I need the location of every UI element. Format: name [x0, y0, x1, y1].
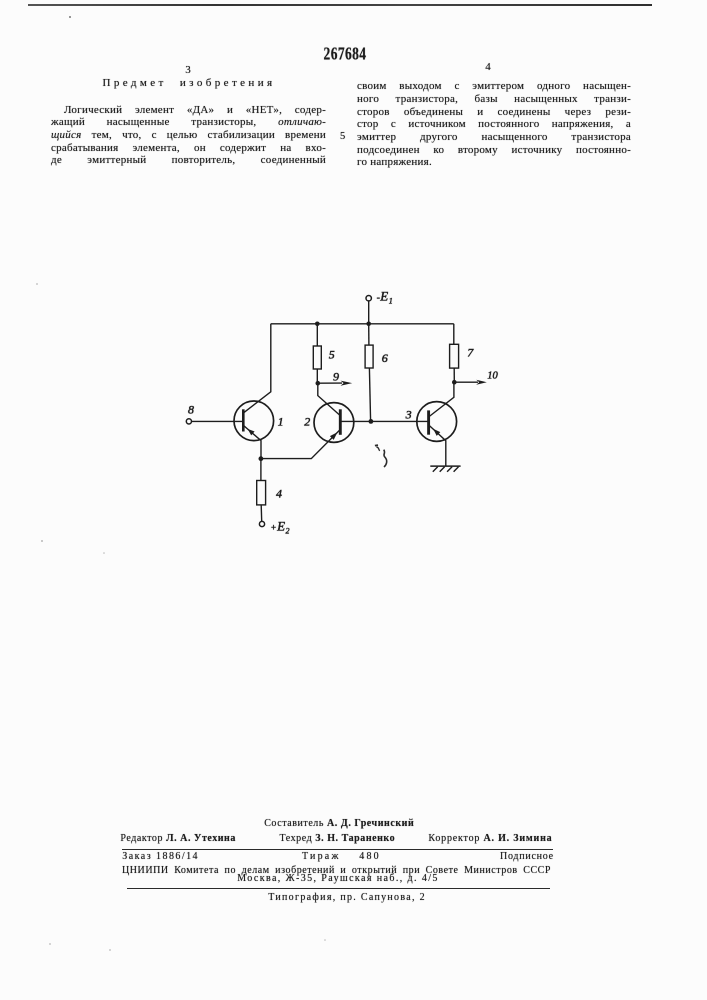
wire bus right end to resistor 7: [453, 324, 455, 345]
resistor R4: [257, 459, 266, 522]
faint page specks: [36, 283, 326, 951]
node 9 junction: [316, 381, 321, 386]
page number 3: [178, 64, 198, 76]
wire bus: [271, 323, 454, 325]
svg-text:4: 4: [276, 487, 282, 501]
output arrow 10: [454, 380, 487, 385]
wire Q2 base to Q3 base: [340, 420, 429, 422]
transistor Q2: [314, 383, 354, 442]
scan edge line at top (artifact): [28, 4, 652, 6]
right column paragraph: [357, 80, 631, 169]
wire -E1 to bus: [368, 301, 370, 324]
node A junction (Q1 emitter / R4 / Q2 emitter): [259, 456, 264, 461]
power terminal -E1: [366, 296, 371, 301]
junction bus/R5: [315, 322, 320, 327]
svg-text:7: 7: [467, 345, 474, 359]
junction bus/-E1: [366, 322, 371, 327]
left column heading: [51, 77, 327, 89]
svg-text:+E2: +E2: [271, 518, 290, 535]
svg-text:-E1: -E1: [377, 289, 393, 306]
resistor R6: [365, 324, 373, 422]
node 10 junction: [452, 380, 457, 385]
svg-text:2: 2: [304, 415, 310, 429]
patent number: [290, 44, 400, 65]
svg-text:9: 9: [333, 369, 339, 383]
svg-text:6: 6: [382, 351, 388, 365]
stray scan squiggle: [375, 445, 387, 467]
resistor R7: [450, 344, 459, 382]
resistor R5: [313, 324, 321, 384]
svg-text:10: 10: [487, 370, 498, 381]
power terminal +E2: [259, 521, 264, 526]
ground: [430, 466, 460, 472]
left column paragraph: [51, 104, 326, 168]
output arrow 9: [318, 381, 352, 386]
svg-text:8: 8: [188, 402, 194, 416]
wire node A to Q2 emitter: [261, 430, 340, 459]
page number 4: [478, 61, 498, 73]
imprint block: [264, 819, 414, 829]
input terminal 8: [186, 419, 191, 424]
transistor Q3: [417, 382, 457, 466]
svg-text:5: 5: [329, 348, 335, 362]
junction base wire / R6: [369, 419, 374, 424]
transistor Q1: [234, 324, 274, 459]
svg-text:1: 1: [278, 415, 284, 429]
wire terminal 8 to Q1 base: [192, 420, 243, 422]
margin line number 5: [340, 131, 345, 142]
svg-text:3: 3: [405, 407, 412, 421]
